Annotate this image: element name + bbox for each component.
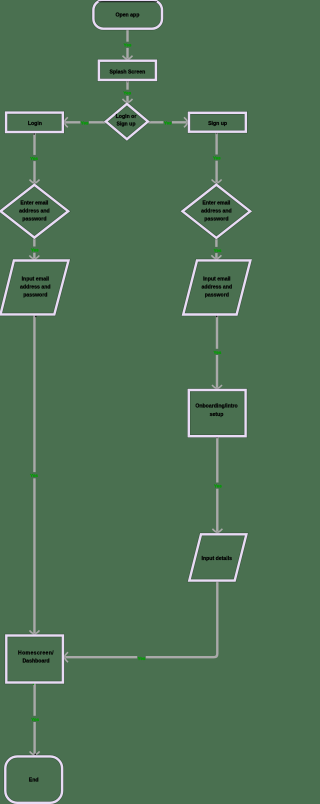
svg-text:Open app: Open app (115, 13, 139, 19)
svg-text:Input email: Input email (22, 277, 50, 283)
wire: decision to Login (64, 117, 106, 127)
svg-text:Splash Screen: Splash Screen (110, 69, 146, 75)
svg-text:Yes: Yes (123, 91, 131, 96)
label Yes (edge 1) (123, 42, 133, 48)
svg-text:Yes: Yes (214, 484, 222, 489)
svg-text:address and: address and (19, 209, 50, 215)
svg-text:Enter email: Enter email (202, 201, 231, 207)
wire: left parallelogram to dashboard (long) (29, 316, 39, 635)
wire: right diamond to right parallelogram (211, 239, 221, 259)
svg-text:setup: setup (210, 412, 224, 418)
terminator: Open app (93, 0, 162, 29)
svg-text:Yes: Yes (213, 156, 221, 161)
process: Homescreen/Dashboard (6, 636, 63, 683)
label Yes (edge 12) (137, 655, 146, 661)
io: Input email (left parallelogram) (1, 261, 69, 315)
svg-text:Yes: Yes (31, 717, 39, 722)
node: connection dot below onboarding box (216, 437, 217, 438)
node: green connection dot below dashboard (33, 684, 34, 685)
label Yes (edge 6) (212, 155, 222, 161)
node: connection dot below Login (33, 133, 35, 135)
svg-text:Yes: Yes (81, 121, 89, 126)
label Yes (edge 5) (29, 155, 39, 161)
label Yes (edge 7) (30, 247, 40, 253)
label Yes (edge 2) (123, 90, 133, 96)
svg-text:password: password (204, 216, 228, 222)
label Yes (edge 4) (163, 120, 172, 126)
svg-text:Yes: Yes (214, 248, 222, 253)
label Yes (edge 10) (213, 349, 223, 355)
wire: right parallelogram to onboarding box (212, 316, 222, 389)
wire: Open app to Splash Screen (123, 30, 133, 60)
svg-text:Yes: Yes (124, 43, 132, 48)
node: connection dot below left parallelogram (35, 316, 37, 318)
node: connection dot above End (35, 754, 37, 756)
svg-text:Dashboard: Dashboard (22, 658, 49, 664)
wire: onboarding box to input details (212, 437, 222, 532)
wire: left diamond to left parallelogram (29, 239, 39, 260)
node: connection dot below Sign up (216, 133, 217, 134)
svg-text:address and: address and (202, 285, 233, 291)
svg-text:End: End (29, 777, 39, 783)
svg-text:Homescreen/: Homescreen/ (18, 651, 54, 657)
svg-text:Login: Login (28, 121, 42, 127)
wire: Sign up to right diamond (212, 133, 222, 184)
label Yes (edge 13) (30, 716, 39, 722)
decision: Enter email (right) (183, 185, 251, 238)
label Yes (edge 8) (213, 247, 223, 253)
svg-text:Input email: Input email (203, 277, 231, 283)
svg-text:Sign up: Sign up (116, 121, 135, 127)
svg-text:Yes: Yes (31, 248, 39, 253)
svg-text:address and: address and (20, 285, 51, 291)
process: Splash Screen (99, 61, 156, 80)
node: connection dot below right parallelogram (216, 316, 218, 318)
wire: dashboard to End (30, 684, 40, 756)
io: Input email (right parallelogram) (183, 260, 250, 314)
process: Onboarding box (189, 390, 246, 436)
wire: Login to left diamond (30, 133, 40, 183)
svg-text:Yes: Yes (138, 656, 146, 661)
wire: input details to dashboard (elbow) (64, 582, 217, 663)
svg-text:Onboarding/intro: Onboarding/intro (195, 404, 237, 410)
decision: LogIn or Sign up (106, 104, 148, 139)
svg-text:Yes: Yes (164, 121, 172, 126)
svg-text:LogIn or: LogIn or (116, 114, 137, 120)
node: connection dot below splash (127, 81, 128, 82)
label Yes (edge 9) (29, 472, 39, 478)
decision: Enter email (left) (1, 185, 69, 238)
svg-text:Yes: Yes (30, 473, 38, 478)
terminator: End (5, 756, 62, 802)
label Yes (edge 11) (213, 483, 223, 489)
svg-text:Yes: Yes (30, 156, 38, 161)
svg-text:password: password (205, 293, 229, 299)
label Yes (edge 3) (80, 120, 89, 126)
wire: decision to Sign up (148, 117, 188, 127)
svg-text:password: password (22, 216, 46, 222)
svg-text:Enter email: Enter email (20, 201, 49, 207)
process: Sign up (189, 113, 246, 132)
svg-text:Yes: Yes (214, 350, 222, 355)
io: Input details parallelogram (189, 534, 246, 580)
process: Login (6, 113, 63, 132)
svg-text:address and: address and (201, 209, 232, 215)
wire: Splash Screen to decision (123, 81, 133, 103)
svg-text:Sign up: Sign up (208, 121, 227, 127)
svg-text:password: password (23, 293, 47, 299)
svg-text:Input details: Input details (202, 556, 233, 562)
